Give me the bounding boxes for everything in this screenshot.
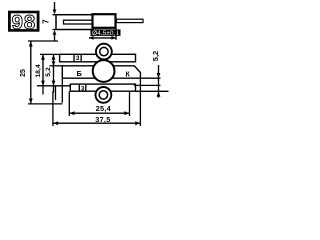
dimension 25,4 arrows xyxy=(69,111,74,115)
top terminal bar xyxy=(60,54,136,62)
svg-text:К: К xyxy=(126,70,131,78)
extra extension verticals bottom left xyxy=(43,78,62,103)
svg-text:25,4: 25,4 xyxy=(96,104,112,113)
bottom eyelet ring inner xyxy=(99,91,107,99)
dimension 5,2 right arrows xyxy=(157,73,161,78)
svg-text:3: 3 xyxy=(81,85,85,92)
svg-text:7: 7 xyxy=(42,19,51,24)
bottom eyelet ring outer xyxy=(96,87,112,103)
dimension 5,2 left arrows xyxy=(52,55,56,60)
dimension 18,4 line xyxy=(42,55,44,86)
svg-text:3: 3 xyxy=(76,55,80,62)
right dim 5,2 extension lines xyxy=(134,78,169,91)
dimension 7 arrow top xyxy=(53,10,57,15)
dimension 5,2 right line xyxy=(158,65,160,98)
dimension 5,2 left line xyxy=(53,55,55,86)
top eyelet ring inner xyxy=(100,47,108,55)
dim 25,4 extension lines xyxy=(69,91,129,116)
side view: lead stick xyxy=(117,19,144,22)
svg-text:Б: Б xyxy=(77,69,83,78)
middle bar with chamfered tab xyxy=(62,66,140,78)
side view: block body xyxy=(93,14,116,28)
under-block dim arrow left xyxy=(89,36,94,40)
svg-text:25: 25 xyxy=(20,69,27,77)
dimension 25 line xyxy=(30,41,32,103)
dimension 37,5 line xyxy=(53,122,140,124)
dimension 18,4 arrows xyxy=(41,55,45,60)
dim 25 extension lines xyxy=(28,41,62,104)
dimension 7 lines xyxy=(54,2,56,42)
svg-text:5,2: 5,2 xyxy=(151,51,160,61)
bottom terminal bar xyxy=(70,84,135,91)
under-block dimension line xyxy=(89,37,116,39)
svg-text:98: 98 xyxy=(12,12,37,34)
under-block dim arrow right xyxy=(111,36,116,40)
figure number badge 98 xyxy=(8,11,40,34)
svg-text:5,2: 5,2 xyxy=(45,67,52,77)
dimension 37,5 arrows xyxy=(53,121,58,125)
side view: slot in strip xyxy=(64,20,94,24)
dim 18,4 extension lines xyxy=(37,54,70,85)
dim 37,5 extension lines xyxy=(53,78,140,126)
side view: cantilever strip xyxy=(56,15,93,30)
top eyelet ring outer xyxy=(96,44,112,60)
svg-text:37,5: 37,5 xyxy=(95,115,110,124)
big center circle xyxy=(93,60,115,82)
dimension 25,4 line xyxy=(69,112,129,114)
dimension 25 arrows xyxy=(29,41,33,46)
dimension 7 arrow bottom xyxy=(53,30,57,35)
under-block dimension text band xyxy=(91,29,121,36)
under-block extension line xyxy=(115,29,117,40)
top bar label dividers xyxy=(74,54,81,62)
side view: extension ticks at strip left xyxy=(53,15,57,30)
bottom bar label dividers xyxy=(79,84,86,91)
svg-text:18,4: 18,4 xyxy=(35,64,42,77)
dim 5,2 left extension line xyxy=(50,65,63,67)
